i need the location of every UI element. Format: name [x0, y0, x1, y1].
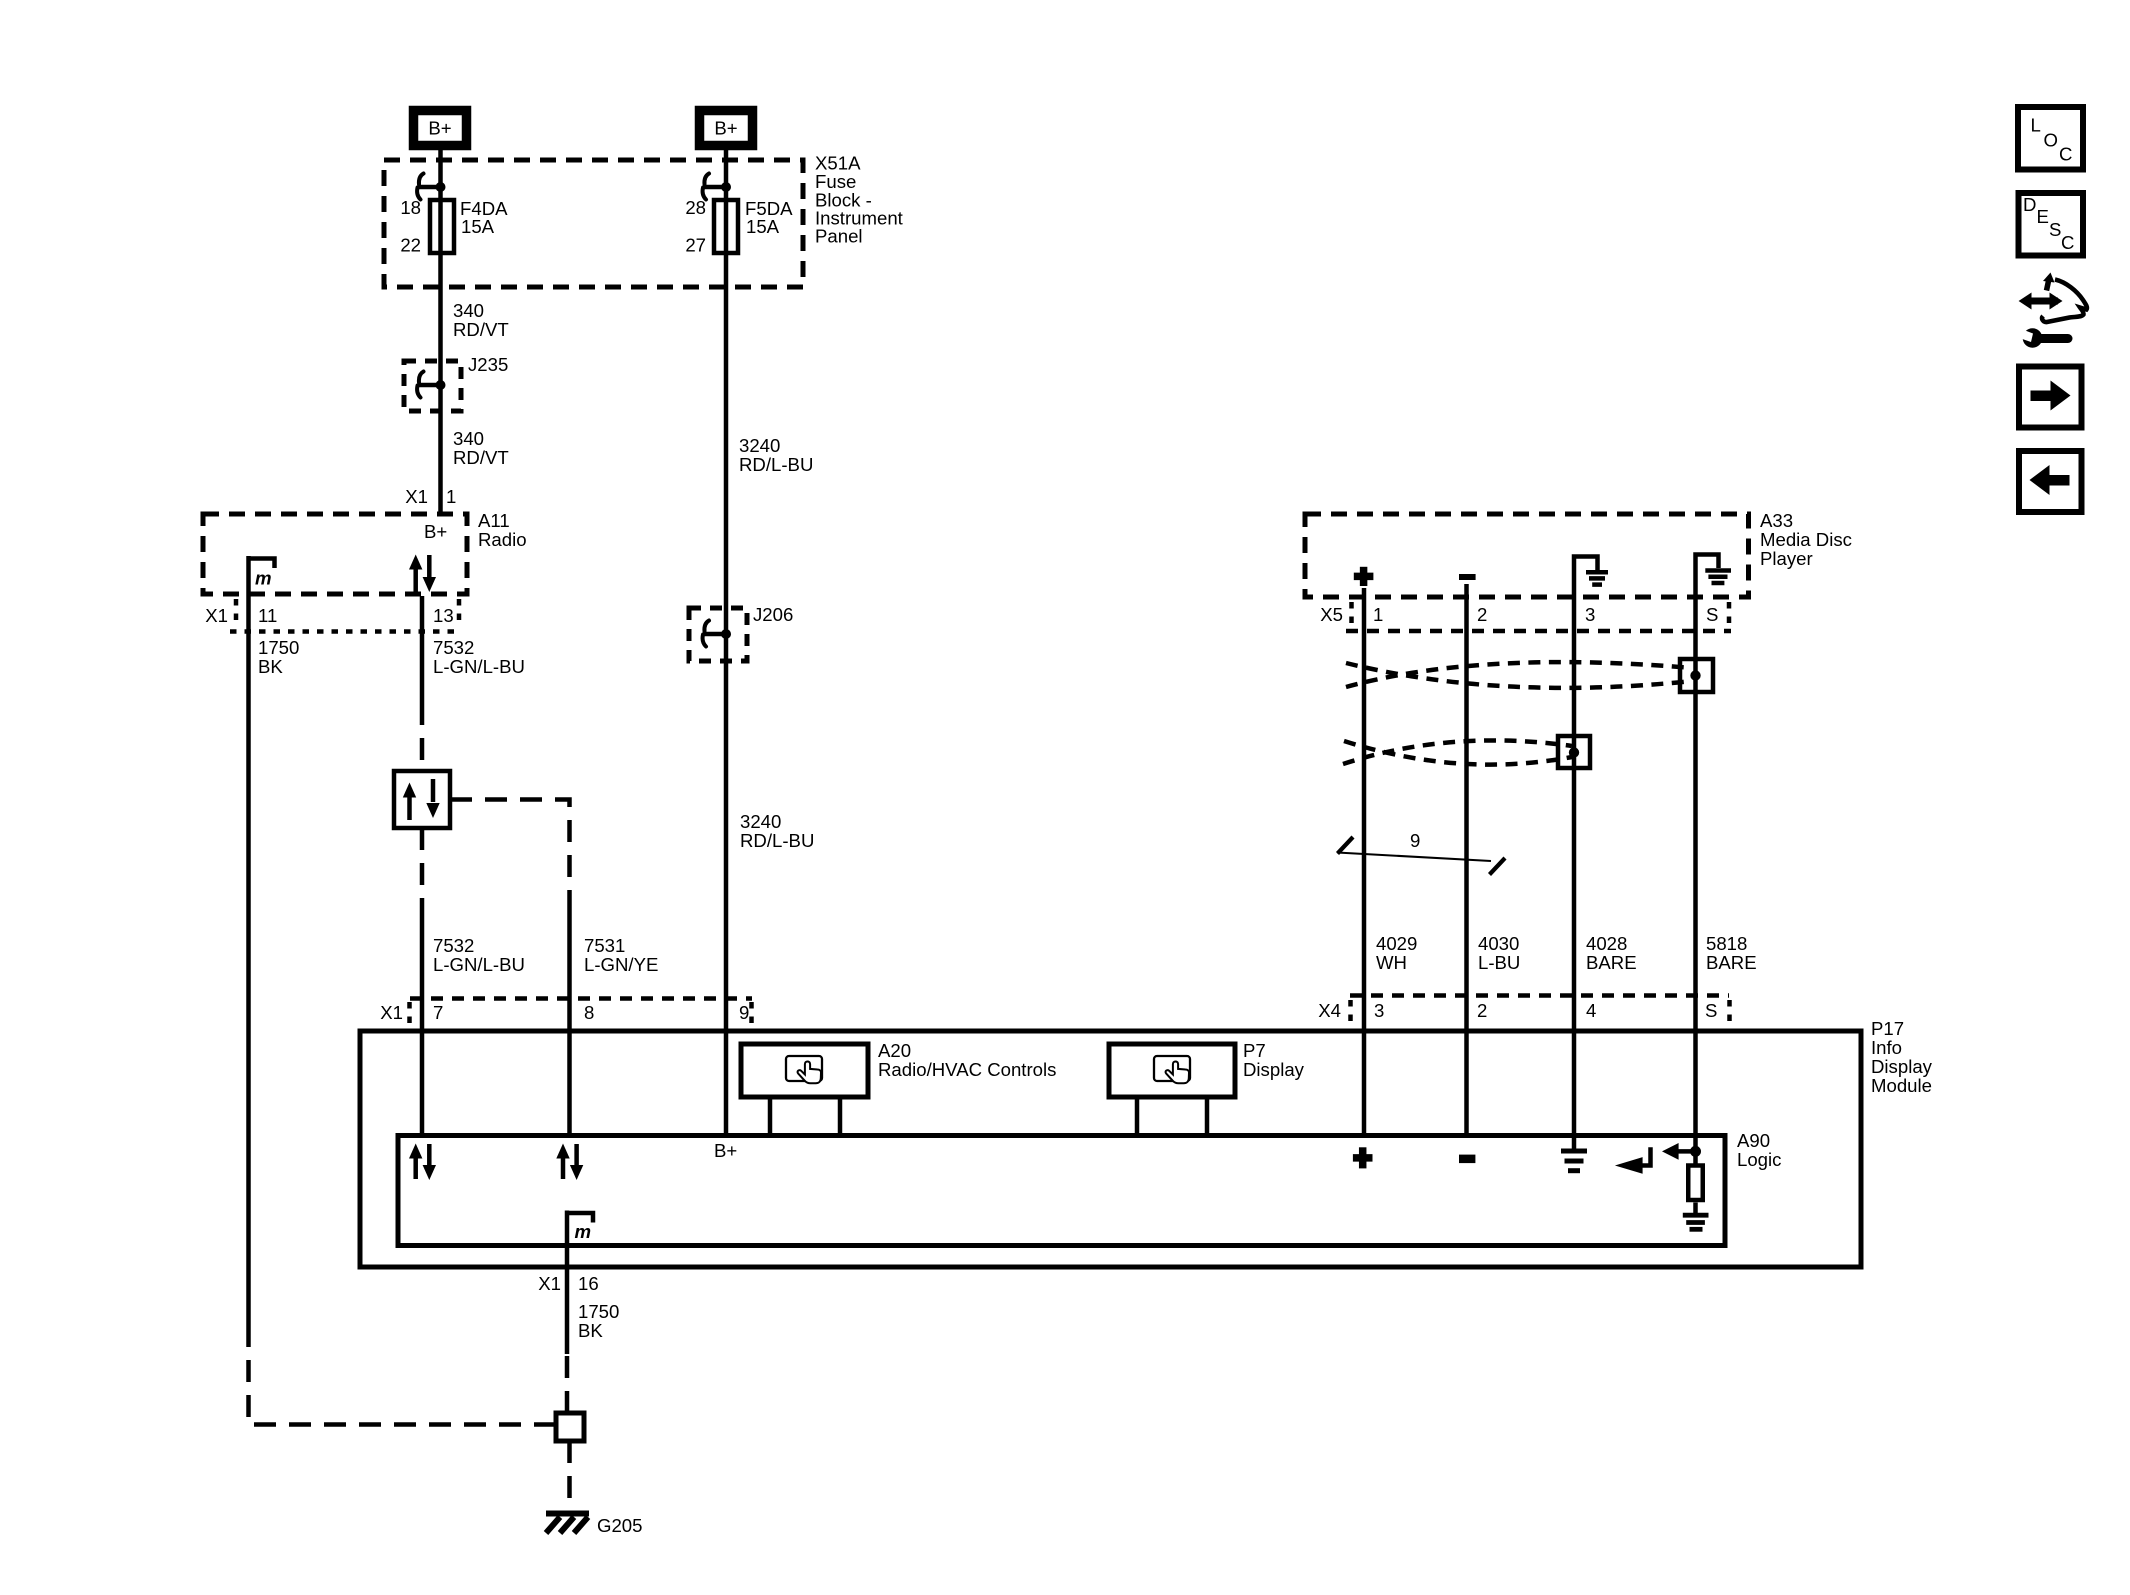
- enter arrow symbol inside A90: [1615, 1147, 1651, 1174]
- wire label 1750 BK (module ground): [578, 1301, 619, 1341]
- connector label X1 pin 1: [405, 486, 456, 507]
- svg-text:A33: A33: [1760, 510, 1793, 531]
- connector label X1 pin 16: [538, 1273, 598, 1294]
- wire radio ground pin 11 down: [246, 596, 251, 1332]
- shield arrow on pin S wire: [1662, 1143, 1701, 1160]
- resistor inside A90: [1688, 1166, 1703, 1201]
- svg-text:O: O: [2044, 130, 2058, 151]
- wire A33 pin 2 (-): [1464, 584, 1469, 1134]
- bidirectional data arrows A90 pin 8: [556, 1144, 583, 1181]
- wire label 7532 L-GN/L-BU (upper): [433, 637, 525, 677]
- svg-text:D: D: [2023, 194, 2036, 215]
- svg-text:S: S: [2049, 219, 2061, 240]
- svg-text:A90: A90: [1737, 1130, 1770, 1151]
- terminal 28 connector symbol: [703, 174, 731, 200]
- svg-text:340: 340: [453, 428, 484, 449]
- nav button LOC: [2018, 107, 2083, 170]
- wire branch solid to module pin 8: [567, 905, 572, 1134]
- splice node: [556, 1413, 584, 1441]
- svg-text:7: 7: [433, 1002, 443, 1023]
- svg-text:m: m: [575, 1221, 592, 1242]
- svg-text:J206: J206: [753, 604, 793, 625]
- splice J235: [404, 354, 508, 411]
- fuse F5DA 15A: [685, 197, 793, 256]
- svg-text:Display: Display: [1243, 1059, 1305, 1080]
- connector row X4 pins 3 2 4 S: [1318, 996, 1729, 1026]
- wire label 4030 L-BU: [1478, 933, 1520, 973]
- svg-text:Module: Module: [1871, 1075, 1932, 1096]
- svg-text:Radio/HVAC Controls: Radio/HVAC Controls: [878, 1059, 1056, 1080]
- svg-text:L-GN/YE: L-GN/YE: [584, 954, 658, 975]
- svg-text:Display: Display: [1871, 1056, 1933, 1077]
- ground symbol inside A33 (pin S): [1696, 555, 1732, 599]
- svg-text:B+: B+: [424, 521, 447, 542]
- svg-text:7532: 7532: [433, 935, 474, 956]
- svg-text:P7: P7: [1243, 1040, 1266, 1061]
- twisted pair symbol lower: [1343, 736, 1590, 768]
- svg-text:X5: X5: [1320, 604, 1343, 625]
- svg-text:3: 3: [1374, 1000, 1384, 1021]
- svg-text:9: 9: [739, 1002, 749, 1023]
- wire resistor to ground: [1693, 1203, 1698, 1214]
- svg-text:S: S: [1706, 604, 1718, 625]
- svg-text:X1: X1: [405, 486, 428, 507]
- wire pin 13 dashed segment: [420, 703, 425, 771]
- svg-text:15A: 15A: [461, 216, 495, 237]
- power symbol B+ (left): [414, 111, 467, 146]
- svg-text:1: 1: [1373, 604, 1383, 625]
- ground symbol inside A90 (pin X1-16): [565, 1211, 593, 1247]
- wire label 7531 L-GN/YE: [584, 935, 658, 975]
- wire label 3240 RD/L-BU (lower): [740, 811, 814, 851]
- nav button next (right arrow): [2019, 367, 2082, 428]
- svg-text:7532: 7532: [433, 637, 474, 658]
- svg-text:L: L: [2031, 115, 2041, 136]
- svg-text:8: 8: [584, 1002, 594, 1023]
- info display module P17 box: [360, 1018, 1933, 1267]
- svg-text:X1: X1: [538, 1273, 561, 1294]
- connector row A11 X1 pins 11 13: [205, 599, 462, 632]
- svg-text:X4: X4: [1318, 1000, 1341, 1021]
- svg-text:B+: B+: [428, 118, 451, 139]
- svg-text:RD/L-BU: RD/L-BU: [740, 830, 814, 851]
- svg-text:RD/VT: RD/VT: [453, 447, 509, 468]
- svg-text:27: 27: [685, 235, 706, 256]
- svg-text:1750: 1750: [578, 1301, 619, 1322]
- wire A33 pin S (shield): [1693, 598, 1698, 1134]
- svg-text:11: 11: [258, 605, 277, 626]
- svg-text:16: 16: [578, 1273, 599, 1294]
- svg-text:18: 18: [400, 197, 421, 218]
- svg-text:BK: BK: [578, 1320, 603, 1341]
- plus terminal inside A33: [1354, 567, 1374, 586]
- svg-text:P17: P17: [1871, 1018, 1904, 1039]
- display P7 box: [1109, 1040, 1305, 1134]
- twisted pair symbol upper: [1346, 659, 1713, 692]
- svg-text:1: 1: [446, 486, 456, 507]
- svg-text:X1: X1: [380, 1002, 403, 1023]
- svg-text:BK: BK: [258, 656, 283, 677]
- svg-text:A11: A11: [478, 510, 510, 531]
- svg-text:2: 2: [1477, 604, 1487, 625]
- serial data link box: [394, 771, 450, 828]
- svg-text:Info: Info: [1871, 1037, 1902, 1058]
- svg-text:340: 340: [453, 300, 484, 321]
- wire dashed ground to splice: [565, 1354, 570, 1413]
- wire label 4028 BARE: [1586, 933, 1637, 973]
- svg-text:X1: X1: [205, 605, 228, 626]
- wire dashed below data box: [420, 828, 425, 910]
- svg-text:3: 3: [1585, 604, 1595, 625]
- wire label 1750 BK (radio ground): [258, 637, 299, 677]
- diagnostic icon (car with arrows and wrench): [2015, 273, 2087, 348]
- wire label 5818 BARE: [1706, 933, 1757, 973]
- svg-text:G205: G205: [597, 1515, 643, 1536]
- svg-text:m: m: [255, 568, 272, 589]
- bidirectional data arrows in A11 pin 13: [409, 555, 436, 593]
- svg-text:RD/VT: RD/VT: [453, 319, 509, 340]
- radio A11 dashed box: [203, 510, 527, 594]
- svg-text:BARE: BARE: [1586, 952, 1637, 973]
- svg-text:J235: J235: [468, 354, 508, 375]
- wire pin 13 solid segment: [420, 596, 425, 703]
- wire count marker 9: [1337, 830, 1505, 875]
- svg-text:22: 22: [400, 235, 421, 256]
- svg-text:3240: 3240: [740, 811, 781, 832]
- svg-text:4029: 4029: [1376, 933, 1417, 954]
- wire dashed splice to G205: [567, 1441, 572, 1508]
- svg-text:13: 13: [433, 605, 454, 626]
- svg-text:C: C: [2059, 144, 2072, 165]
- svg-text:L-GN/L-BU: L-GN/L-BU: [433, 954, 525, 975]
- svg-text:Radio: Radio: [478, 529, 527, 550]
- wire label 340 RD/VT (upper): [453, 300, 509, 340]
- ground symbol inside A90 (pin 4): [1561, 1138, 1587, 1171]
- svg-text:Player: Player: [1760, 548, 1813, 569]
- svg-text:3240: 3240: [739, 435, 780, 456]
- ground symbol inside A11: [247, 556, 275, 596]
- svg-text:28: 28: [685, 197, 706, 218]
- splice J206: [689, 604, 793, 661]
- svg-text:4: 4: [1586, 1000, 1596, 1021]
- ground symbol below resistor: [1683, 1215, 1709, 1229]
- svg-text:WH: WH: [1376, 952, 1407, 973]
- svg-text:B+: B+: [714, 118, 737, 139]
- svg-text:E: E: [2037, 206, 2049, 227]
- svg-text:S: S: [1705, 1000, 1717, 1021]
- svg-text:RD/L-BU: RD/L-BU: [739, 454, 813, 475]
- wire label 340 RD/VT (lower): [453, 428, 509, 468]
- wire B+ right to info display module pin X1-9: [724, 148, 729, 1134]
- svg-text:L-GN/L-BU: L-GN/L-BU: [433, 656, 525, 677]
- connector row X5 pins 1 2 3 S: [1320, 602, 1731, 631]
- svg-text:4030: 4030: [1478, 933, 1519, 954]
- media disc player A33 dashed box: [1305, 510, 1852, 597]
- svg-text:5818: 5818: [1706, 933, 1747, 954]
- svg-text:Panel: Panel: [815, 226, 863, 247]
- ground symbol inside A33 (pin 3): [1574, 557, 1608, 599]
- svg-text:15A: 15A: [746, 216, 780, 237]
- wire pin S inside A90: [1693, 1134, 1698, 1165]
- ground G205: [546, 1514, 643, 1537]
- svg-text:BARE: BARE: [1706, 952, 1757, 973]
- terminal 18 connector symbol: [417, 174, 445, 200]
- power symbol B+ (right): [700, 111, 753, 146]
- svg-text:2: 2: [1477, 1000, 1487, 1021]
- wire radio ground dashed segment to splice: [249, 1332, 557, 1425]
- fuse F4DA 15A: [400, 197, 508, 256]
- plus terminal inside A90: [1353, 1147, 1373, 1168]
- svg-text:C: C: [2061, 232, 2074, 253]
- wire dashed branch from data box: [450, 800, 570, 906]
- svg-text:1750: 1750: [258, 637, 299, 658]
- wire pin 13 lower solid to module: [420, 910, 425, 1134]
- minus terminal inside A33: [1459, 574, 1476, 580]
- svg-text:A20: A20: [878, 1040, 911, 1061]
- svg-text:L-BU: L-BU: [1478, 952, 1520, 973]
- nav button back (left arrow): [2019, 451, 2082, 512]
- connector row X1 pins 7 8 9: [380, 999, 752, 1028]
- logic A90 box: [398, 1130, 1781, 1246]
- svg-text:Media Disc: Media Disc: [1760, 529, 1852, 550]
- wire label 7532 L-GN/L-BU (lower): [433, 935, 525, 975]
- svg-text:4028: 4028: [1586, 933, 1627, 954]
- bidirectional data arrows A90 pin 7: [409, 1144, 436, 1181]
- wire ground pin 16 below module: [565, 1246, 570, 1354]
- wire label 4029 WH: [1376, 933, 1417, 973]
- wire label 3240 RD/L-BU (upper): [739, 435, 813, 475]
- wire B+ left to radio pin X1-1: [438, 148, 443, 514]
- minus terminal inside A90: [1459, 1155, 1475, 1164]
- wire A33 pin 3 (ground): [1572, 598, 1577, 1134]
- svg-text:Logic: Logic: [1737, 1149, 1781, 1170]
- wire A33 pin 1 (+): [1362, 588, 1367, 1134]
- svg-text:B+: B+: [714, 1140, 737, 1161]
- radio/hvac controls A20 box: [741, 1040, 1056, 1134]
- svg-text:9: 9: [1410, 830, 1420, 851]
- svg-text:7531: 7531: [584, 935, 625, 956]
- fuse block X51A dashed box: [384, 153, 904, 288]
- nav button DESC: [2019, 193, 2084, 256]
